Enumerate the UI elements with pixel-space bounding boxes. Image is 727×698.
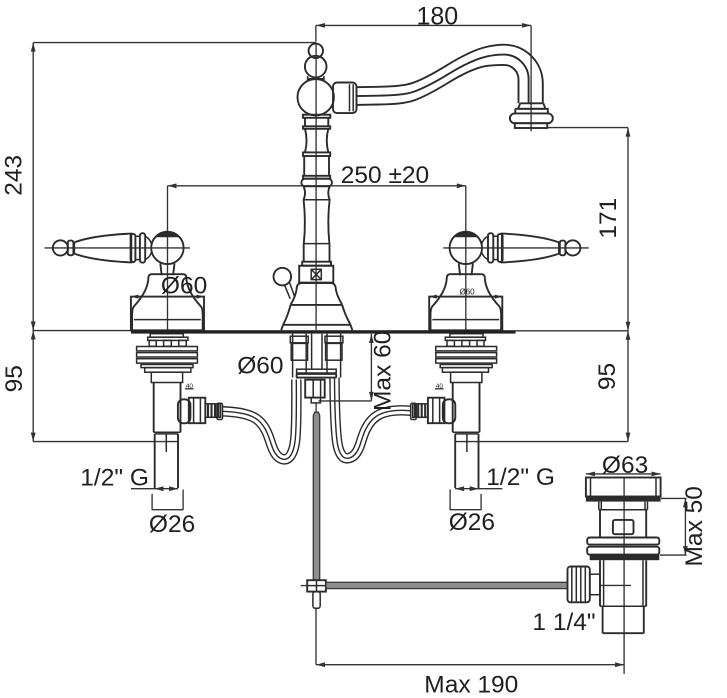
svg-text:Ø60: Ø60: [161, 272, 207, 299]
svg-text:Ø60: Ø60: [460, 288, 476, 297]
drain centerline: [623, 477, 625, 651]
outlet hex nut: [428, 398, 445, 424]
valve flange: [442, 368, 488, 373]
under-deck flange: [150, 334, 183, 338]
center escutcheon (spout base): [297, 283, 336, 287]
handle ball dark cap: [454, 232, 478, 237]
tailpiece: [455, 434, 478, 488]
valve flange: [145, 368, 191, 373]
drain flange dark rim: [586, 497, 661, 502]
valve lower body: [154, 383, 181, 433]
under-deck nuts: [149, 340, 156, 346]
flexible hose right: [335, 378, 411, 459]
svg-text:Ø60: Ø60: [237, 352, 283, 379]
handle tip disc: [68, 241, 74, 256]
clamp plate: [297, 374, 337, 378]
spout column centerline: [315, 44, 317, 330]
rod lower tip: [313, 592, 320, 609]
handle grip: [502, 234, 559, 263]
left handle assembly: [45, 232, 223, 488]
under-deck flange: [450, 334, 483, 338]
rod thin lower line: [315, 608, 317, 664]
finial neck: [307, 76, 325, 81]
svg-text:95: 95: [594, 363, 621, 390]
nut hub: [590, 574, 600, 595]
escutcheon base: [131, 297, 204, 331]
column shaft with rings: [303, 115, 330, 118]
dimension 95 left: [1, 331, 178, 442]
dimension 250 +-20: [168, 162, 466, 330]
svg-text:171: 171: [595, 198, 622, 239]
center nut block: [305, 380, 325, 398]
hose collar: [411, 403, 417, 419]
svg-text:Ø63: Ø63: [602, 452, 648, 479]
spout outlet flare: [518, 103, 546, 109]
handle ball dark cap: [155, 232, 179, 237]
svg-text:1/2" G: 1/2" G: [80, 465, 149, 492]
dimension Max 50: [660, 486, 708, 566]
center tip: [311, 398, 320, 403]
spout body ball: [298, 79, 334, 115]
drain dark band: [590, 555, 660, 561]
drain bottom line: [600, 605, 646, 607]
under-deck nuts: [477, 340, 484, 346]
handle ball: [450, 232, 482, 264]
overflow hole: [613, 520, 634, 534]
escutcheon bell lower rim: [134, 319, 201, 321]
drain neck: [599, 502, 648, 510]
handle tip ball: [565, 240, 580, 255]
escutcheon bell lower rim: [432, 319, 499, 321]
svg-text:180: 180: [416, 2, 458, 30]
outlet nipple (ridged): [413, 404, 428, 418]
tail centerline stub: [466, 435, 468, 453]
dimension O26 right: [449, 486, 503, 536]
handle lever centerline: [45, 247, 191, 249]
deck extension lines: [33, 330, 131, 332]
svg-text:243: 243: [1, 155, 28, 196]
pop-up rod centerline stub: [315, 403, 317, 412]
drain ring 2: [587, 547, 659, 555]
outlet nipple (ridged): [205, 404, 220, 418]
dimension O26 left: [131, 486, 195, 538]
castellated nut: [568, 567, 590, 603]
tailpiece: [155, 434, 178, 488]
finial small ball: [309, 44, 323, 58]
drain body lower: [600, 560, 646, 606]
valve step: [154, 431, 181, 433]
drain tailpiece: [603, 606, 644, 633]
dimension 243 left: [1, 43, 316, 331]
drain flange: [586, 478, 661, 497]
dimension 171 right: [547, 128, 630, 331]
handle grip: [74, 234, 131, 263]
handle tip ball: [53, 240, 68, 255]
pop-up knob: [274, 268, 292, 286]
valve body: [451, 372, 482, 382]
handle stem: [459, 263, 473, 275]
dimension O63: [586, 452, 661, 479]
right shank nut (dark): [326, 343, 342, 360]
valve lower body: [453, 383, 480, 433]
center shank tube: [312, 334, 322, 369]
handle ball: [151, 232, 183, 264]
svg-text:Ø26: Ø26: [149, 511, 195, 538]
svg-text:1 1/4": 1 1/4": [532, 609, 595, 636]
dimension 180 top: [316, 2, 531, 131]
svg-text:Ø26: Ø26: [449, 509, 495, 536]
svg-text:1/2" G: 1/2" G: [486, 464, 555, 491]
ribbed stack: [436, 347, 497, 351]
handle lever centerline: [443, 247, 589, 249]
outlet bulge: [178, 399, 191, 423]
finial mid ball: [305, 56, 327, 78]
drain body upper: [600, 510, 646, 538]
right handle assembly (mirrored): [411, 232, 589, 488]
dimension Max 60: [319, 331, 397, 411]
escutcheon bell: [431, 274, 502, 330]
valve body: [151, 372, 182, 382]
drain ring 1: [587, 538, 659, 545]
svg-text:Max 60: Max 60: [369, 331, 396, 411]
right supply shank: [327, 334, 341, 378]
svg-text:Max 50: Max 50: [681, 486, 708, 566]
pop-up knob rod: [285, 283, 295, 299]
svg-text:95: 95: [1, 365, 28, 392]
handle collar rings: [498, 234, 503, 262]
spout tube: [356, 45, 543, 104]
handle tip disc: [560, 241, 566, 256]
handle stem: [160, 263, 174, 275]
left shank nut (dark): [291, 343, 307, 360]
valve step: [453, 431, 480, 433]
tail centerline stub: [165, 435, 167, 453]
dimension Max 190: [316, 651, 624, 698]
handle collar rings: [131, 234, 136, 262]
pop-up horizontal rod (gray): [326, 582, 567, 588]
clamp bar (dark): [297, 369, 337, 373]
deck / countertop: [131, 330, 516, 333]
outlet bulge: [443, 399, 456, 423]
svg-text:Max 190: Max 190: [424, 671, 518, 698]
escutcheon base: [429, 297, 502, 331]
flexible hose left: [223, 380, 297, 460]
left supply shank: [293, 334, 307, 378]
outlet hex nut: [189, 398, 206, 424]
diverter box with X: [299, 266, 333, 283]
pop-up vertical rod (gray): [313, 412, 319, 580]
hose collar: [217, 403, 223, 419]
escutcheon bell: [132, 274, 203, 330]
svg-text:250 ±20: 250 ±20: [341, 162, 429, 189]
ribbed stack: [137, 347, 198, 351]
dimension 95 right: [455, 331, 630, 442]
spout collar: [333, 83, 357, 114]
rod cross block: [307, 580, 326, 591]
